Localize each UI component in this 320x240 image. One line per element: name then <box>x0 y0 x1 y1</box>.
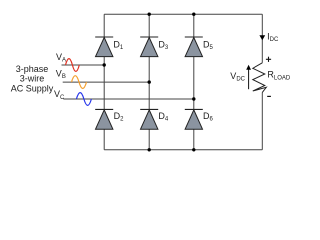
junction node top rail leg C <box>192 13 195 16</box>
diode D2 <box>95 109 113 129</box>
svg-text:D1: D1 <box>113 39 124 51</box>
wire phase B <box>63 81 150 83</box>
junction node top rail leg B <box>148 13 151 16</box>
minus sign <box>267 95 271 97</box>
svg-text:D4: D4 <box>158 111 169 123</box>
diode D6 <box>185 109 203 129</box>
svg-text:IDC: IDC <box>267 31 279 43</box>
svg-text:D5: D5 <box>203 39 214 51</box>
source waveform phase A (red sine) <box>66 59 80 72</box>
wire leg C (D5/D6 column) <box>193 14 195 150</box>
IDC current arrow (down) <box>259 35 265 40</box>
wire phase C <box>63 98 193 100</box>
svg-text:VDC: VDC <box>230 71 245 83</box>
VDC voltage arrow (up) <box>246 65 251 90</box>
junction node bottom rail leg B <box>148 148 151 151</box>
wire right rail upper segment <box>261 14 263 63</box>
junction node phase B / leg B <box>148 80 151 83</box>
wire right rail lower segment <box>261 92 263 149</box>
wire bottom DC- rail <box>104 149 262 151</box>
source waveform phase C (blue sine) <box>76 93 91 106</box>
diode D1 <box>95 37 113 57</box>
svg-text:D2: D2 <box>114 111 125 123</box>
svg-text:AC Supply: AC Supply <box>11 83 54 93</box>
wire leg A (D1/D2 column) <box>103 14 105 150</box>
diode D4 <box>140 109 158 129</box>
svg-text:RLOAD: RLOAD <box>267 70 291 82</box>
wire leg B (D3/D4 column) <box>148 14 150 150</box>
source waveform phase B (orange sine) <box>72 76 87 89</box>
svg-text:D3: D3 <box>158 39 169 51</box>
junction node phase A / leg A <box>103 63 106 66</box>
svg-text:VC: VC <box>54 89 65 101</box>
junction node bottom rail leg C <box>192 148 195 151</box>
svg-text:VA: VA <box>56 52 66 64</box>
resistor RLOAD zigzag <box>253 63 266 93</box>
wire phase A <box>62 64 105 66</box>
svg-text:D6: D6 <box>203 111 214 123</box>
plus sign <box>266 57 271 62</box>
diode D5 <box>185 37 203 57</box>
diode D3 <box>140 37 158 57</box>
svg-text:VB: VB <box>56 69 66 81</box>
svg-text:3-wire: 3-wire <box>20 74 45 84</box>
label 3-phase 3-wire AC Supply <box>11 64 54 93</box>
svg-text:3-phase: 3-phase <box>16 64 49 74</box>
wire top DC+ rail <box>104 13 262 15</box>
junction node phase C / leg C <box>192 97 195 100</box>
